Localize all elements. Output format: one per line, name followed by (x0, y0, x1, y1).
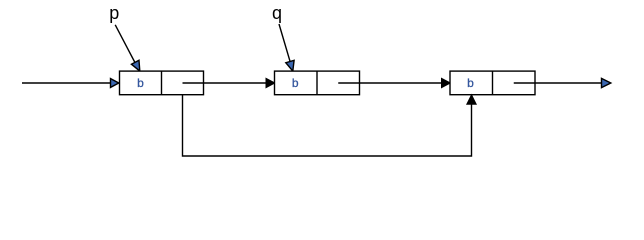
node N1 divider (161, 71, 163, 95)
arrowhead pointer-q (blue) (286, 60, 294, 71)
wire N3 next outgoing (514, 82, 601, 84)
arrowhead incoming (blue) (111, 79, 119, 88)
svg-text:q: q (272, 3, 282, 23)
wire N2 next to N3 (338, 82, 442, 84)
svg-text:b: b (292, 76, 299, 90)
wire feedback N1 bottom to N3 bottom (183, 95, 472, 156)
svg-text:b: b (467, 76, 474, 90)
wire N1 next to N2 (183, 82, 267, 84)
arrowhead feedback up (black) (467, 95, 476, 105)
arrowhead N1-to-N2 (black) (266, 78, 275, 87)
wire pointer-p diagonal (115, 25, 136, 65)
wire incoming head pointer (22, 82, 111, 84)
svg-text:b: b (137, 76, 144, 90)
svg-text:p: p (109, 3, 119, 23)
node N3 box (450, 71, 535, 95)
arrowhead N2-to-N3 (black) (442, 78, 451, 87)
node N2 box (275, 71, 360, 95)
arrowhead pointer-p (blue) (131, 60, 139, 71)
node N3 divider (492, 71, 494, 95)
wire pointer-q diagonal (279, 24, 291, 65)
arrowhead outgoing (blue) (602, 78, 611, 87)
node N2 divider (316, 71, 318, 95)
node N1 box (120, 71, 204, 95)
